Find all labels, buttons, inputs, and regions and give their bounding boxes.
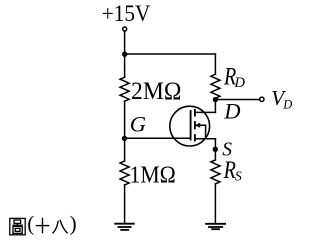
svg-text:(: ( bbox=[27, 212, 34, 236]
VD terminal (open circle) bbox=[260, 97, 264, 101]
wire: 2M bottom to node G bbox=[124, 101, 126, 161]
transistor Q1 body circle bbox=[170, 106, 210, 146]
wire: node D to VD terminal bbox=[215, 99, 259, 101]
wire: left branch from top junction down to 2M resistor bbox=[124, 54, 126, 77]
node G junction dot bbox=[122, 136, 127, 141]
Q1 body arrowhead (N-channel, points at channel) bbox=[194, 123, 200, 128]
node junction dot at top rail bbox=[122, 52, 127, 57]
svg-text:): ) bbox=[70, 212, 77, 236]
svg-text:G: G bbox=[130, 111, 146, 136]
Q1 body stub with arrow to source bbox=[198, 125, 206, 139]
ground (right) bbox=[206, 224, 225, 229]
caption glyph: CJK ba (eight) drawn as two strokes bbox=[53, 220, 68, 234]
svg-text:1MΩ: 1MΩ bbox=[130, 161, 176, 188]
caption glyph: CJK shi (ten) drawn as cross bbox=[36, 218, 50, 234]
svg-text:D: D bbox=[223, 99, 240, 124]
label RD bbox=[223, 63, 245, 91]
wire: source lead to node S bbox=[214, 139, 216, 150]
supply terminal (open circle) bbox=[123, 27, 127, 31]
label VD bbox=[271, 86, 292, 112]
ground (left) bbox=[115, 224, 134, 230]
node S junction dot bbox=[213, 147, 218, 152]
wire: terminal to top junction bbox=[124, 32, 126, 55]
label RS bbox=[223, 157, 242, 184]
svg-text:S: S bbox=[235, 169, 242, 184]
caption glyph: CJK tu (figure) drawn as strokes bbox=[10, 218, 25, 234]
wire: RS bottom to right ground bbox=[214, 184, 216, 223]
svg-text:+15V: +15V bbox=[102, 1, 151, 26]
Q1 channel segment (source) bbox=[194, 135, 196, 141]
wire: gate lead from node G to gate bar bbox=[125, 137, 191, 139]
wire: top rail horizontal bbox=[125, 53, 216, 55]
node D junction dot bbox=[213, 97, 218, 102]
resistor RD zigzag bbox=[211, 74, 220, 98]
svg-text:R: R bbox=[223, 157, 236, 184]
Q1 source stub bbox=[195, 138, 216, 140]
svg-text:D: D bbox=[282, 98, 292, 112]
resistor 1M zigzag bbox=[120, 161, 129, 185]
svg-text:2MΩ: 2MΩ bbox=[131, 78, 181, 105]
wire: RD bottom to node D bbox=[214, 98, 216, 100]
Q1 gate bar bbox=[190, 111, 192, 140]
resistor 2M zigzag bbox=[120, 77, 129, 101]
Q1 channel segment (drain) bbox=[194, 110, 196, 116]
svg-text:D: D bbox=[234, 75, 246, 91]
wire: 1M bottom to left ground bbox=[124, 185, 126, 223]
wire: drain lead from node D down into MOSFET bbox=[214, 100, 216, 113]
resistor RS zigzag bbox=[211, 160, 220, 184]
Q1 channel segment (body) bbox=[194, 122, 196, 128]
wire: right branch down to RD bbox=[214, 54, 216, 74]
wire: node S to RS bbox=[214, 149, 216, 160]
Q1 drain stub bbox=[195, 111, 216, 113]
